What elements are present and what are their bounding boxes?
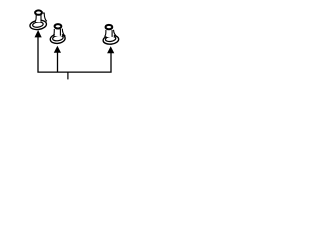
wire: middle arrow shaft xyxy=(57,52,59,72)
wire: center tick below line xyxy=(67,72,69,79)
screw 1 (top-left): washer ring, neck, cap xyxy=(29,10,47,30)
screw 3 (right) xyxy=(103,25,119,45)
screw 2 (middle) xyxy=(50,24,66,44)
arrowhead under screw 3 xyxy=(107,46,114,53)
arrowhead under screw 1 xyxy=(35,30,42,37)
arrowhead under screw 2 xyxy=(54,46,61,53)
wire: left arrow shaft, bottom horizontal line, right arrow shaft xyxy=(38,37,111,72)
